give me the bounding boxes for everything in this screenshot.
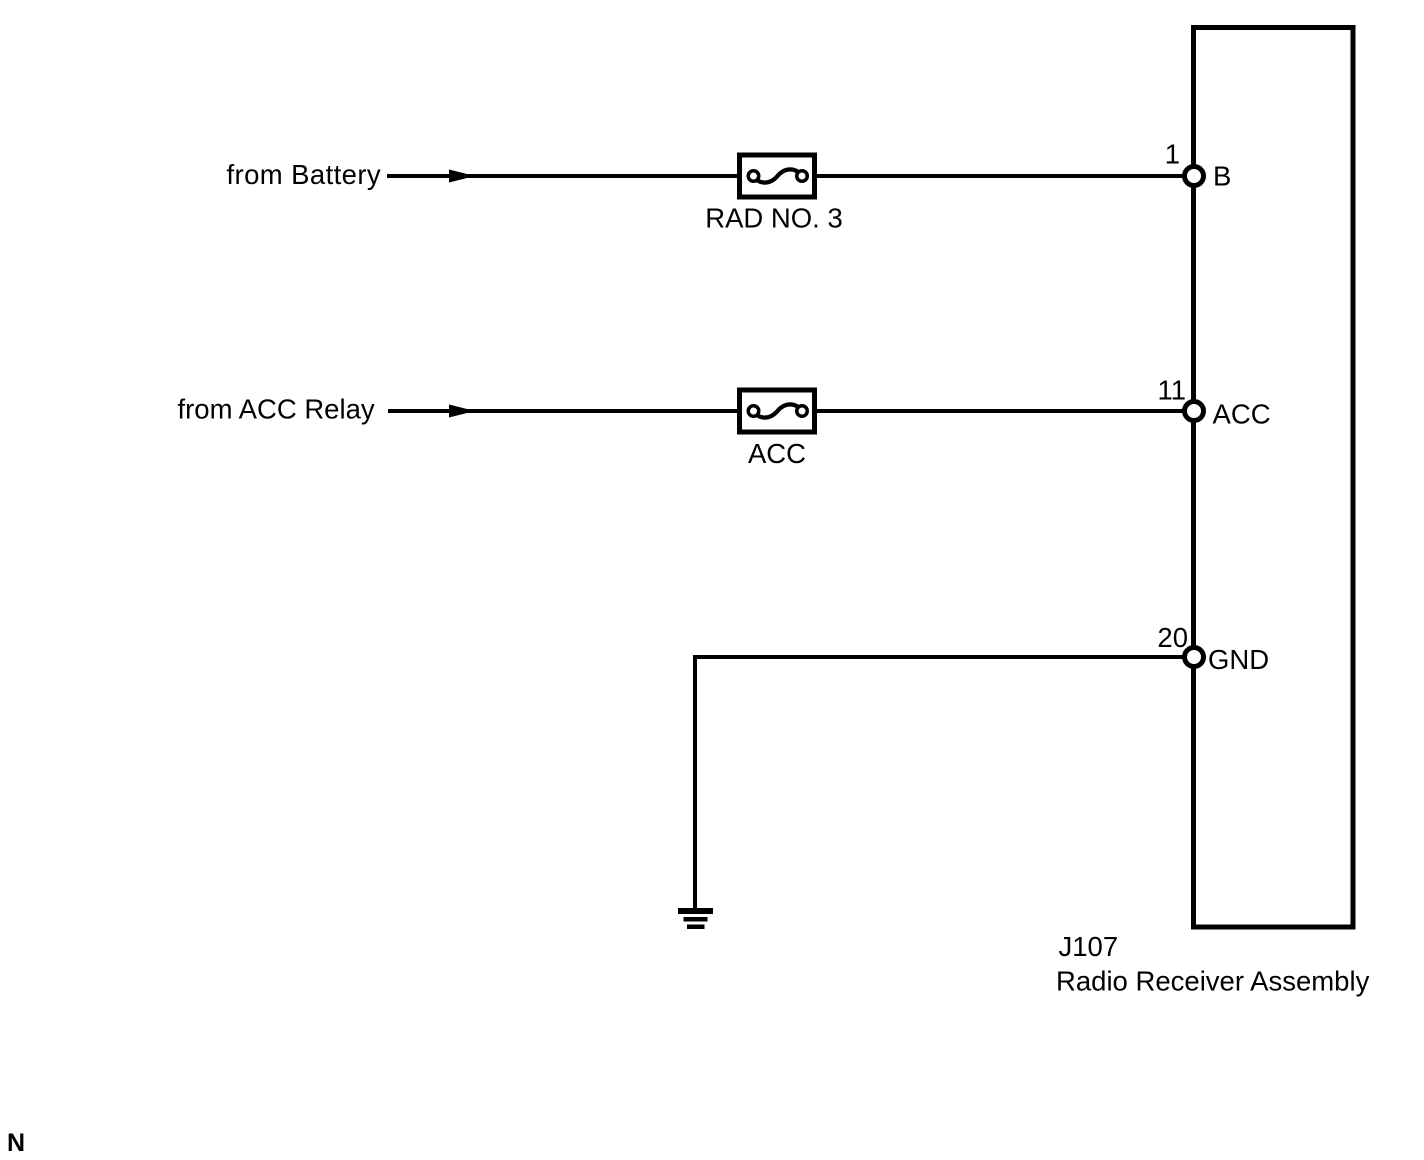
wire from fuse RAD NO. 3 to pin 1 (802, 174, 1194, 178)
wire GND vertical (693, 655, 697, 908)
arrowhead on ACC wire (449, 405, 475, 418)
svg-text:B: B (1213, 161, 1231, 192)
wire from ACC Relay to fuse ACC (388, 409, 753, 413)
svg-text:RAD NO. 3: RAD NO. 3 (705, 203, 843, 234)
connector body J107 (1194, 28, 1354, 928)
svg-text:GND: GND (1208, 644, 1269, 675)
svg-text:from ACC Relay: from ACC Relay (178, 394, 375, 425)
wire from fuse ACC to pin 11 (802, 409, 1194, 413)
pin 1 (1185, 167, 1204, 186)
svg-text:20: 20 (1157, 622, 1188, 653)
ground symbol (678, 908, 713, 929)
svg-text:ACC: ACC (748, 438, 806, 469)
svg-text:11: 11 (1157, 374, 1186, 405)
svg-text:Radio Receiver Assembly: Radio Receiver Assembly (1056, 965, 1370, 996)
pin 11 (1185, 402, 1204, 421)
fuse ACC (740, 390, 815, 432)
arrowhead on battery wire (449, 170, 475, 183)
svg-text:1: 1 (1165, 139, 1180, 170)
svg-text:J107: J107 (1059, 931, 1119, 962)
svg-text:from Battery: from Battery (227, 159, 382, 190)
wire GND horizontal (695, 655, 1194, 659)
svg-text:N: N (7, 1129, 25, 1157)
svg-text:ACC: ACC (1213, 398, 1271, 429)
fuse RAD NO. 3 (740, 155, 815, 197)
wire from Battery to fuse RAD NO. 3 (387, 174, 753, 178)
pin 20 (1185, 648, 1204, 667)
